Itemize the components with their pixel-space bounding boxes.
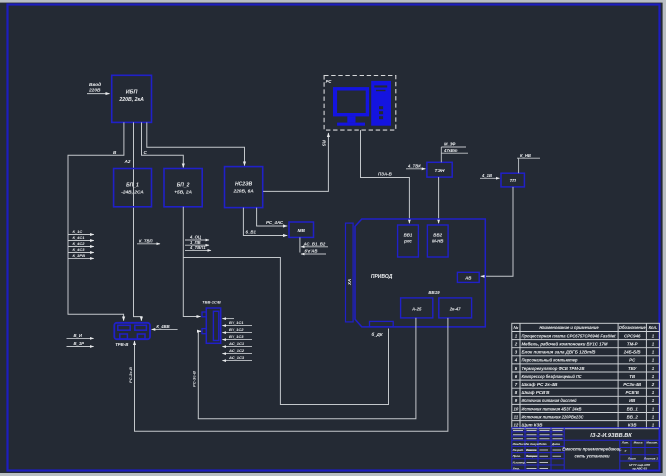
wire БП_2 branch to б_ДК (183, 258, 388, 405)
svg-text:Масшт.: Масшт. (646, 440, 658, 444)
svg-text:6_В1: 6_В1 (246, 230, 257, 235)
BOM row 10 (513, 406, 654, 411)
terminal block ТВВ-1С/В (202, 300, 221, 344)
svg-text:КЗВ: КЗВ (628, 423, 637, 428)
svg-text:Лист: Лист (627, 456, 636, 460)
svg-text:ІЗ-2-И.9ЗВВ.ВК: ІЗ-2-И.9ЗВВ.ВК (590, 433, 632, 439)
power supply НСЭВ (225, 167, 263, 208)
power supply БП_2 (164, 169, 202, 207)
module 2к-47 (439, 298, 472, 318)
svg-text:РСЗк-4В: РСЗк-4В (623, 382, 641, 387)
svg-text:гр.АВС-03: гр.АВС-03 (632, 467, 647, 471)
svg-text:АС_1С3: АС_1С3 (228, 355, 245, 360)
BOM row 8 (515, 390, 655, 395)
svg-text:В'/_1С2: В'/_1С2 (229, 327, 244, 332)
BOM row 1 (515, 333, 655, 338)
svg-text:Блок питания зала ДВГБ 12Вт/В: Блок питания зала ДВГБ 12Вт/В (522, 350, 596, 355)
wire ИБП to НСЭВ (147, 122, 245, 165)
svg-text:РСВ'В: РСВ'В (626, 390, 639, 395)
svg-text:ТВ: ТВ (629, 374, 635, 379)
connector ХА strip (346, 223, 354, 322)
BOM row 3 (515, 350, 655, 355)
node label К_4ВВ (152, 324, 178, 329)
svg-text:ХА: ХА (347, 279, 352, 286)
module ВВ2 (427, 225, 448, 257)
svg-text:ТВВ-1С/В: ТВВ-1С/В (202, 300, 221, 305)
system unit of PC (371, 81, 391, 126)
svg-text:К_4ВВ: К_4ВВ (156, 324, 169, 329)
title block right cells (621, 440, 658, 470)
svg-text:220В, 2кА: 220В, 2кА (118, 97, 144, 103)
fan МВ (289, 222, 314, 237)
svg-text:К_4С1: К_4С1 (73, 235, 86, 240)
title block frame (512, 428, 660, 471)
svg-text:Лит.: Лит. (621, 440, 629, 444)
BOM row 6 (515, 374, 655, 379)
svg-text:12: 12 (513, 423, 518, 428)
svg-text:РС-Зс-В: РС-Зс-В (192, 371, 197, 387)
svg-text:-24В, 2СА: -24В, 2СА (121, 190, 144, 196)
svg-text:СРС946: СРС946 (624, 333, 641, 338)
svg-text:24Б-Б/В: 24Б-Б/В (623, 350, 641, 355)
wire RS: НСЭВ to PC (263, 133, 328, 191)
heat pump ТП (501, 173, 524, 187)
power supply ИБП (112, 75, 152, 122)
svg-text:Разраб.: Разраб. (513, 448, 524, 452)
node label 1_ПВ (185, 240, 209, 245)
svg-text:Персональный компьютер: Персональный компьютер (522, 358, 578, 363)
svg-text:Утв.: Утв. (513, 466, 520, 470)
svg-text:НС2ЭВ: НС2ЭВ (235, 182, 253, 188)
svg-text:РС-Зс-В: РС-Зс-В (128, 367, 133, 383)
svg-text:РС_4АС: РС_4АС (266, 220, 284, 225)
wire stub into ТВВ-1С/В right top (222, 318, 234, 320)
wire 2к-47 to ТРВ-В (135, 318, 448, 431)
svg-text:Терморегулятор ФСВ ТРМ-2В: Терморегулятор ФСВ ТРМ-2В (522, 366, 585, 371)
node label 4_1В (480, 173, 500, 178)
svg-text:К_3РВ: К_3РВ (73, 253, 86, 258)
svg-text:К_4С2: К_4С2 (73, 241, 86, 246)
svg-text:ТМ-Р: ТМ-Р (627, 342, 638, 347)
connector б_ДК notch (370, 321, 394, 337)
svg-text:В'/_1С3: В'/_1С3 (229, 334, 244, 339)
svg-text:М-НВ: М-НВ (432, 238, 444, 243)
svg-text:Наименование и примечание: Наименование и примечание (539, 325, 599, 330)
svg-text:47кВт: 47кВт (443, 148, 458, 153)
svg-text:б_ДК: б_ДК (372, 332, 383, 337)
svg-text:Обозначение: Обозначение (619, 325, 647, 330)
node label К_1С on left bus (68, 229, 94, 234)
title block revision rows (513, 442, 561, 471)
svg-text:В_И: В_И (74, 333, 83, 338)
svg-text:БП_1: БП_1 (126, 183, 139, 189)
svg-text:ПЗА-В: ПЗА-В (378, 172, 393, 177)
title block subject (562, 447, 621, 459)
wire А-25 to ТВВ-1С/В (198, 318, 416, 419)
node label АС_1С1 (222, 341, 252, 346)
svg-text:ТЭН: ТЭН (435, 168, 445, 174)
svg-text:ПРИВОД: ПРИВОД (371, 274, 393, 280)
svg-text:Дата: Дата (551, 442, 560, 446)
svg-text:Н.контр.: Н.контр. (513, 460, 526, 464)
svg-text:АВ: АВ (464, 276, 472, 281)
svg-text:АС_В1_В2: АС_В1_В2 (303, 241, 326, 246)
svg-text:ИБП: ИБП (126, 90, 138, 96)
svg-text:М_3Ф: М_3Ф (444, 142, 456, 147)
svg-text:11: 11 (514, 414, 519, 419)
module А-25 (401, 298, 433, 318)
svg-text:10: 10 (513, 406, 518, 411)
svg-text:4: 4 (514, 358, 518, 363)
svg-text:4_1В: 4_1В (481, 173, 492, 178)
power supply БП_1 (114, 169, 152, 207)
BOM row 4 (514, 358, 655, 363)
svg-text:К_НВ: К_НВ (520, 153, 531, 158)
BOM row 9 (515, 398, 655, 403)
node label К_4С1 on left bus (68, 235, 94, 240)
svg-text:ВВ1: ВВ1 (404, 232, 413, 237)
svg-text:Емкости приемопередающ.: Емкости приемопередающ. (562, 447, 621, 452)
node label В'/_1С2 (222, 327, 252, 332)
svg-text:В'/_1С1: В'/_1С1 (229, 320, 244, 325)
svg-text:№: № (514, 325, 519, 330)
svg-text:Листов 1: Листов 1 (643, 456, 658, 460)
svg-text:МВ: МВ (297, 228, 305, 234)
svg-text:К_ТВП: К_ТВП (139, 238, 153, 243)
svg-text:Щит КЗВ: Щит КЗВ (522, 423, 543, 428)
svg-text:Процессорная плата СРС6757СР69: Процессорная плата СРС6757СР6946 FastNet (522, 333, 617, 338)
monitor of PC (333, 87, 369, 126)
svg-text:РС: РС (629, 358, 636, 363)
node label К_4С2 on left bus (68, 241, 94, 246)
wire НСЭВ to МВ lower (243, 208, 287, 236)
svg-text:Источник питания дисплей: Источник питания дисплей (522, 398, 577, 403)
svg-text:+5В, 2А: +5В, 2А (174, 190, 192, 196)
svg-text:ТРВ-В: ТРВ-В (115, 342, 128, 347)
svg-text:2к-47: 2к-47 (449, 306, 461, 311)
svg-text:220В: 220В (88, 88, 101, 94)
svg-text:RS: RS (322, 140, 327, 147)
svg-text:А-25: А-25 (411, 306, 422, 311)
svg-text:сеть установки: сеть установки (574, 454, 609, 459)
svg-text:220В, 6А: 220В, 6А (232, 189, 254, 195)
wire ИБП to БП_2 (phase C) (142, 122, 184, 167)
node label К_4С3 on left bus (68, 247, 94, 252)
svg-text:ВВ19: ВВ19 (428, 290, 440, 295)
BOM row 7 (515, 382, 655, 387)
svg-text:БП_2: БП_2 (177, 183, 190, 189)
node label М_3Ф 47кВт flags above ТЭН (441, 142, 468, 163)
drive unit ПРИВОД enclosure (355, 219, 485, 327)
svg-text:рлс: рлс (403, 238, 412, 243)
wire НСЭВ to МВ upper (257, 208, 288, 226)
computer PC dashed enclosure (324, 76, 396, 131)
svg-text:Ввод: Ввод (89, 82, 101, 88)
svg-text:АС_1С2: АС_1С2 (228, 348, 245, 353)
node label В_И (67, 333, 94, 339)
svg-text:ВВ2: ВВ2 (433, 232, 442, 237)
BOM specification table (512, 323, 660, 428)
BOM row 5 (515, 366, 655, 371)
svg-text:ВВ_2: ВВ_2 (627, 414, 639, 419)
svg-text:К_1С: К_1С (73, 229, 83, 234)
svg-text:4_ТВК: 4_ТВК (407, 163, 421, 168)
wire ТЭН to ВВ2 (438, 177, 440, 223)
node label В'/_1С3 (222, 334, 252, 339)
svg-text:Источник питания 4БЗГ 24кВ: Источник питания 4БЗГ 24кВ (522, 406, 582, 411)
node label 6'г'АВ (301, 249, 326, 254)
node label 4_ТВК (406, 163, 425, 168)
svg-text:Масса: Масса (634, 440, 643, 444)
node label АС_1С2 (222, 348, 252, 353)
module ВВ1 (398, 225, 419, 257)
wire ТП to АВ (481, 187, 513, 276)
wire МВ down stub (299, 237, 301, 252)
svg-text:Подп.: Подп. (539, 442, 547, 446)
node label АС_В1_В2 (301, 241, 328, 246)
svg-text:ТВУ: ТВУ (628, 366, 638, 371)
svg-text:№ докум.: № докум. (526, 442, 540, 446)
wire А-25 down stub (415, 317, 417, 319)
svg-text:ВВ_1: ВВ_1 (627, 406, 639, 411)
module АВ (457, 272, 479, 282)
svg-text:ИВ: ИВ (629, 398, 635, 403)
svg-text:Мебель, рабочей компоновки ВУ1: Мебель, рабочей компоновки ВУ1С 17М (522, 342, 608, 347)
svg-text:PC: PC (326, 79, 333, 84)
node label 4_ОЦ (185, 235, 209, 240)
BOM row 2 (514, 342, 655, 347)
svg-text:4_ТВП1: 4_ТВП1 (189, 245, 206, 250)
svg-text:Пров.: Пров. (513, 454, 521, 458)
node label В'/_1С1 (222, 320, 252, 325)
svg-text:АС_1С1: АС_1С1 (228, 341, 245, 346)
node label К_3РВ on left bus (68, 253, 94, 258)
svg-text:Компрессор безфланцевый ПС: Компрессор безфланцевый ПС (522, 374, 583, 379)
svg-text:Кол.: Кол. (649, 325, 658, 330)
svg-text:6'г'АВ: 6'г'АВ (305, 249, 318, 254)
heater ТЭН (427, 162, 452, 177)
BOM row 11 (514, 414, 655, 419)
svg-text:А2: А2 (124, 159, 131, 164)
node label В_1Р (67, 341, 94, 347)
wire ИБП to ТРВ-В (A2) (134, 122, 142, 320)
BOM table header (514, 325, 658, 330)
wire БП_2 down to ТВВ-1С/В (183, 207, 200, 317)
BOM row 12 (513, 423, 654, 428)
node label 4_ТВП1 (185, 245, 211, 250)
relay block ТРВ-В (114, 323, 150, 347)
title block signature marks (513, 431, 563, 469)
node Ввод 220В input flag (87, 82, 110, 94)
node label К_НВ flag above ТП (517, 153, 540, 173)
svg-text:Источник питания 220РВк2ЗС: Источник питания 220РВк2ЗС (522, 414, 585, 419)
svg-text:К_4С3: К_4С3 (73, 247, 86, 252)
svg-text:Шкаф РСВ'В: Шкаф РСВ'В (522, 390, 550, 395)
wire PC monitor to ВВ1 (361, 130, 410, 223)
svg-text:Шкаф РС 2к-4В: Шкаф РС 2к-4В (522, 382, 558, 387)
svg-text:В_1Р: В_1Р (74, 341, 85, 346)
svg-text:2: 2 (514, 342, 518, 347)
svg-text:ТП: ТП (510, 178, 517, 184)
node label АС_1С3 (222, 355, 252, 360)
node label К_ТВП (137, 238, 160, 243)
wire ИБП to left bus (phase B) (68, 122, 124, 320)
svg-text:2: 2 (651, 382, 655, 387)
